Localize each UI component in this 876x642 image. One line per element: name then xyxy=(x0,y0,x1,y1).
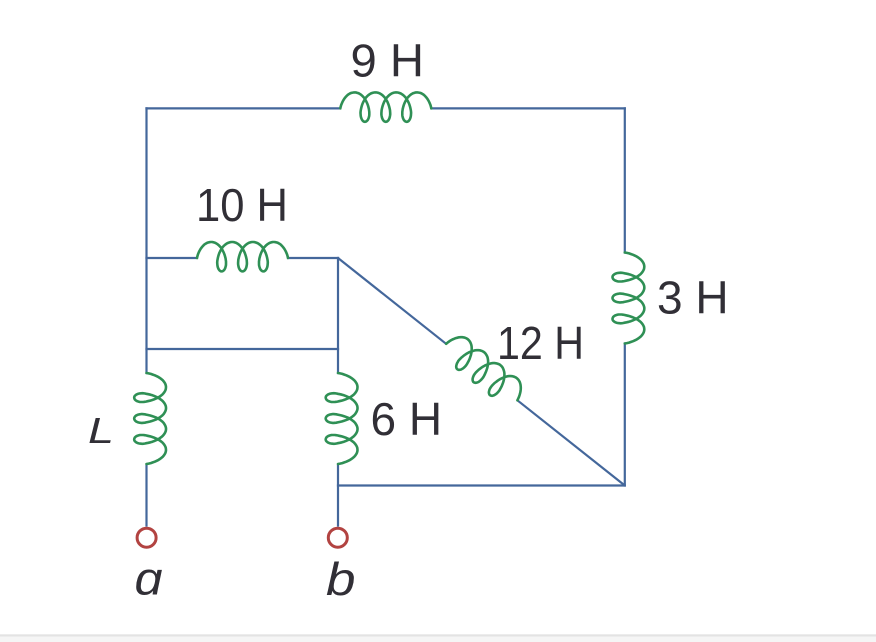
terminal b node circle xyxy=(328,528,347,547)
wire middle horizontal link xyxy=(147,348,339,350)
svg-text:12 H: 12 H xyxy=(497,317,584,369)
svg-text:10 H: 10 H xyxy=(196,179,288,231)
wire top side (left rail top corner to right rail top corner, gap for 9 H coil) xyxy=(147,107,625,109)
svg-text:b: b xyxy=(326,553,356,605)
inductor L xyxy=(134,373,166,464)
inductor 10 H xyxy=(197,242,288,271)
inductor 6 H xyxy=(326,373,358,464)
wire middle vertical (node to 6 H coil) xyxy=(337,258,339,373)
inductor 3 H xyxy=(613,253,645,344)
wire 10 H branch (left rail to middle node, gap for coil) xyxy=(147,257,339,259)
svg-text:L: L xyxy=(88,410,114,451)
wire diagonal lower segment (12 H coil to bottom right corner) xyxy=(517,400,624,485)
terminal a node circle xyxy=(137,528,156,547)
wire diagonal upper segment (middle node to 12 H coil) xyxy=(338,258,446,344)
svg-text:ɑ: ɑ xyxy=(135,553,163,605)
inductor 12 H xyxy=(446,337,521,400)
wire left rail (top corner down to L coil) xyxy=(145,108,147,373)
wire left terminal lead (L coil to terminal a) xyxy=(145,464,147,527)
wire bottom side xyxy=(338,484,625,486)
svg-text:9 H: 9 H xyxy=(351,34,425,86)
svg-text:6 H: 6 H xyxy=(371,393,443,445)
inductor 9 H xyxy=(340,92,431,121)
wire middle terminal lead (6 H coil through bottom junction to terminal b) xyxy=(337,464,339,527)
wire right rail (top corner to bottom corner, gap for 3 H coil) xyxy=(624,108,626,485)
svg-text:3 H: 3 H xyxy=(657,271,729,323)
